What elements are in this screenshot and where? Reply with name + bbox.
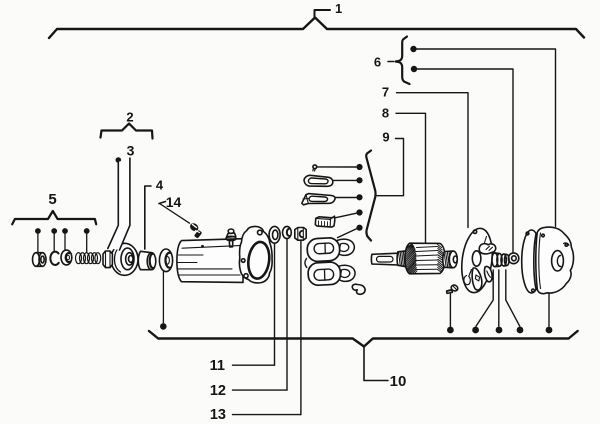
- svg-text:1: 1: [335, 1, 342, 16]
- svg-text:6: 6: [374, 55, 381, 70]
- svg-text:10: 10: [390, 373, 407, 390]
- svg-text:4: 4: [156, 178, 164, 193]
- svg-text:3: 3: [127, 143, 135, 159]
- svg-text:2: 2: [126, 110, 133, 125]
- svg-text:8: 8: [382, 106, 389, 121]
- svg-text:11: 11: [210, 358, 225, 374]
- svg-text:7: 7: [382, 85, 389, 100]
- svg-text:14: 14: [166, 194, 182, 210]
- svg-text:13: 13: [210, 407, 226, 423]
- svg-text:9: 9: [382, 130, 389, 145]
- svg-text:5: 5: [48, 191, 56, 208]
- svg-text:12: 12: [210, 383, 226, 399]
